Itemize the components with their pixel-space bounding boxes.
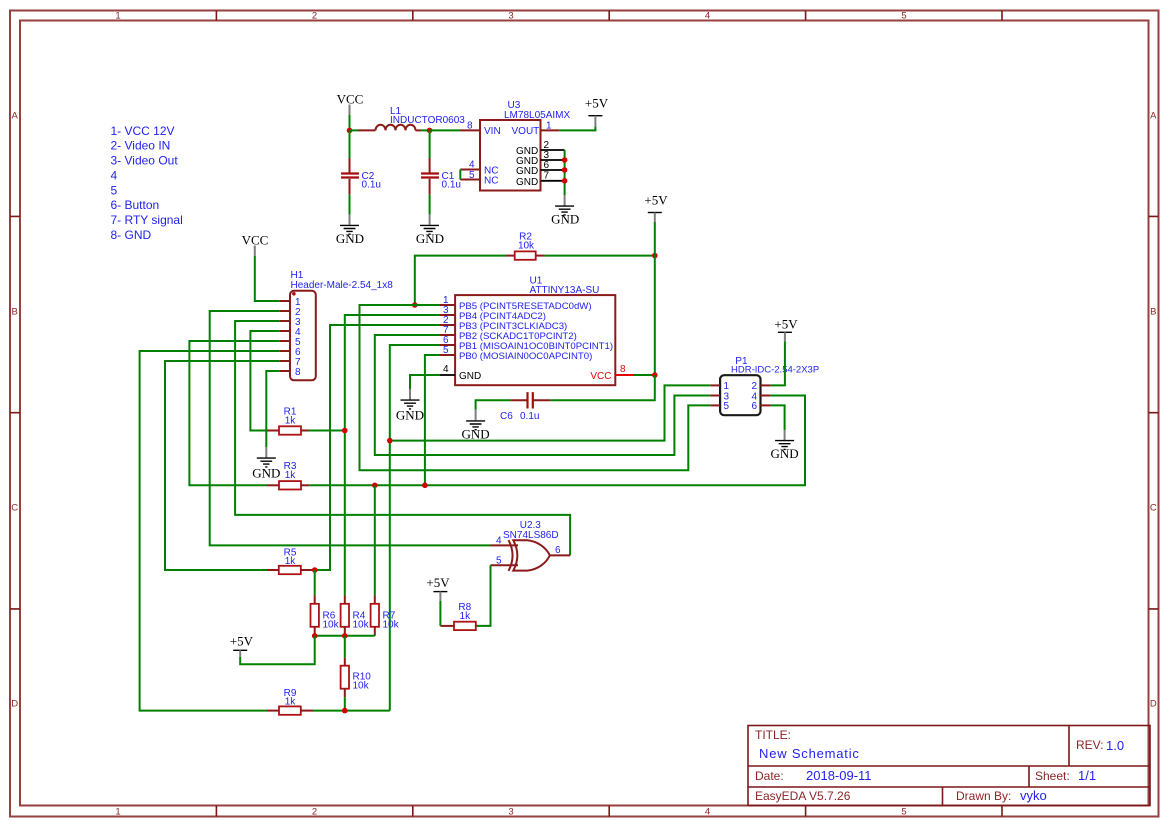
label R4 value 10k (353, 620, 370, 631)
svg-text:6: 6 (752, 401, 758, 412)
op-amp U3 LM78L05AIMX regulator (480, 120, 541, 191)
wire U1 pin4 to ground (410, 375, 440, 389)
svg-text:GND: GND (416, 231, 444, 246)
frame ticks bottom (216, 806, 1002, 817)
svg-text:REV:: REV: (1076, 738, 1104, 752)
node R2/+5V junction (652, 253, 658, 259)
label Header-Male-2.54_1x8 (291, 280, 394, 291)
svg-text:PB0 (MOSIAIN0OC0APCINT0): PB0 (MOSIAIN0OC0APCINT0) (459, 351, 592, 362)
wire +5V stem down to node (654, 222, 656, 256)
svg-text:VOUT: VOUT (512, 126, 540, 137)
node R1/PB4/R4 junction (342, 428, 348, 434)
svg-text:B: B (1150, 307, 1156, 318)
label C2 (362, 171, 375, 182)
label R2 (519, 231, 532, 242)
capacitor C2 (341, 130, 359, 214)
svg-text:GND: GND (551, 212, 579, 227)
frame column labels top (115, 11, 906, 22)
svg-text:7: 7 (544, 170, 550, 181)
pin 5 of H1 (280, 337, 301, 348)
label R6 value 10k (323, 620, 340, 631)
node L1/C1/U3 junction (427, 128, 433, 134)
label H1 (291, 270, 304, 281)
pin 4 GND of U1 (440, 364, 481, 382)
easyeda version (755, 789, 851, 803)
label R5 (284, 548, 297, 559)
label HDR-IDC-2.54-2X3P (731, 365, 819, 376)
ground below C2 (336, 215, 364, 247)
net port +5V above R2 node (644, 192, 668, 222)
svg-text:VCC: VCC (590, 371, 611, 382)
pin 3 of H1 (280, 317, 301, 328)
label U2.3 (520, 520, 542, 531)
drawn by label (956, 789, 1011, 803)
svg-text:1.0: 1.0 (1106, 738, 1124, 753)
pin 8 VIN of U3 (460, 120, 501, 137)
wire +5V rail down to C6 row (550, 375, 655, 400)
wire U3 VOUT to +5V (559, 126, 595, 130)
svg-text:1/1: 1/1 (1078, 768, 1096, 783)
wire +5V node down to U1 VCC node (654, 256, 656, 375)
title block box (748, 726, 1150, 806)
resistor R1 (267, 426, 309, 434)
svg-text:2018-09-11: 2018-09-11 (806, 768, 872, 783)
svg-text:Header-Male-2.54_1x8: Header-Male-2.54_1x8 (291, 280, 394, 291)
svg-text:New Schematic: New Schematic (759, 746, 860, 761)
pin 7 PB2 of U1 (440, 325, 577, 342)
ground below C1 (416, 215, 444, 247)
svg-text:0.1u: 0.1u (362, 180, 381, 191)
resistor R6 (vertical) (311, 595, 319, 635)
node P1 pin1 / PB1 junction (387, 438, 393, 444)
svg-text:6: 6 (555, 545, 561, 556)
label R9 value 1k (285, 697, 297, 708)
label U3 (508, 100, 521, 111)
svg-text:C: C (1150, 503, 1157, 514)
pin 5 of P1 (710, 401, 729, 412)
wire H1 pin8 down to ground (266, 371, 279, 447)
svg-text:C6: C6 (500, 411, 513, 422)
wire H1 pin2 to XOR pin4 row (210, 311, 491, 545)
svg-text:5: 5 (469, 170, 475, 181)
svg-text:A: A (12, 111, 19, 122)
label R10 value 10k (353, 681, 370, 692)
pin 6 of H1 (280, 347, 301, 358)
svg-text:GND: GND (459, 371, 481, 382)
net port VCC (top) (337, 92, 364, 116)
svg-text:10k: 10k (518, 241, 535, 252)
pin 1 of P1 (710, 381, 729, 392)
inductor L1 (358, 125, 421, 131)
wire U1 pin2 row down (PB3 net) (313, 325, 440, 570)
svg-text:GND: GND (771, 446, 799, 461)
pin 1 PB5 of U1 (440, 295, 592, 312)
svg-text:+5V: +5V (230, 633, 254, 648)
wire U1 VCC to +5V rail (634, 374, 655, 376)
label R9 (284, 688, 297, 699)
capacitor C1 (421, 130, 439, 214)
label R7 (383, 610, 396, 621)
svg-text:10k: 10k (323, 620, 340, 631)
wire R2 row left to U1 pin1 vertical (415, 256, 506, 305)
svg-text:2- Video IN: 2- Video IN (111, 139, 171, 153)
node R4 bottom junction (342, 633, 348, 639)
pin 6 of P1 (752, 401, 771, 412)
label R3 (284, 461, 297, 472)
label C2 value 0.1u (362, 180, 381, 191)
svg-text:8: 8 (295, 367, 301, 378)
svg-text:0.1u: 0.1u (520, 411, 539, 422)
pin 2 of H1 (280, 307, 301, 318)
node VCC/L1/C2 junction (347, 128, 353, 134)
frame ticks left (10, 216, 20, 609)
pin 6 GND of U3 (516, 160, 565, 177)
svg-text:4: 4 (705, 807, 710, 818)
svg-text:VCC: VCC (337, 92, 364, 107)
svg-text:5: 5 (111, 183, 118, 197)
ground below P1 pin6 (771, 430, 799, 461)
node U1 VCC junction (652, 372, 658, 378)
svg-text:5: 5 (901, 807, 906, 818)
svg-text:INDUCTOR0603: INDUCTOR0603 (390, 115, 465, 126)
label R6 (323, 610, 336, 621)
svg-text:1- VCC 12V: 1- VCC 12V (111, 124, 175, 138)
wire R6 bottom down to +5V row (240, 636, 315, 664)
resistor R5 (267, 566, 313, 574)
svg-text:3: 3 (508, 11, 513, 22)
pin 4 of U2.3 (491, 536, 519, 547)
wire U1 pin1 row to PB5 loop (360, 305, 711, 470)
label P1 (735, 356, 748, 367)
label R8 (458, 602, 471, 613)
op-amp U1 ATTINY13A-SU (455, 295, 615, 385)
title value (759, 746, 860, 761)
svg-text:GND: GND (516, 177, 538, 188)
label C6 value 0.1u (520, 411, 539, 422)
svg-text:U2.3: U2.3 (520, 520, 542, 531)
pin 8 of H1 (280, 367, 301, 378)
svg-text:4: 4 (705, 11, 710, 22)
pin 5 NC of U3 (460, 170, 498, 187)
wire R5 junction down to R6 (314, 570, 316, 595)
frame row labels left (11, 111, 18, 710)
node R3 row / R7 junction (372, 483, 378, 489)
ground below H1 pin8 (252, 447, 280, 481)
wire R3 junction down to R7 (374, 485, 376, 595)
svg-text:1k: 1k (460, 611, 472, 622)
pin 3 GND of U3 (516, 150, 565, 167)
label R7 value 10k (383, 620, 400, 631)
label R3 value 1k (285, 470, 297, 481)
svg-text:+5V: +5V (585, 95, 609, 110)
svg-text:5: 5 (901, 11, 906, 22)
svg-text:4: 4 (443, 364, 449, 375)
wire H1 pin5 down to R3 (189, 341, 279, 485)
pin 3 of P1 (710, 391, 729, 402)
label C6 (500, 411, 513, 422)
wire U1 pin6 row down (PB1 net) (390, 345, 440, 711)
wire P1 pin1 loop to PB1 net (390, 385, 710, 440)
svg-text:GND: GND (462, 426, 490, 441)
wire VCC to H1 pin1 (255, 256, 280, 301)
wire H1 pin3 to XOR output loop (235, 321, 570, 555)
rev label (1076, 738, 1104, 752)
wire U1 pin5 row down (PB0 net) (425, 355, 440, 485)
svg-text:1k: 1k (285, 415, 297, 426)
wire H1 pin6 down to R9 (140, 351, 280, 711)
ground below U1 pin4 (396, 389, 424, 423)
resistor R8 (440, 622, 476, 630)
wire U3 GND bus vertical (564, 150, 566, 195)
svg-text:GND: GND (252, 466, 280, 481)
svg-text:0.1u: 0.1u (442, 180, 461, 191)
svg-text:TITLE:: TITLE: (755, 728, 791, 742)
svg-text:A: A (1150, 111, 1157, 122)
pin 5 of U2.3 (491, 555, 519, 566)
svg-text:D: D (11, 699, 18, 710)
pin 6 PB1 of U1 (440, 335, 613, 352)
wire U2 pin5 down to R8 (476, 565, 491, 626)
wire U1 pin3 row down (PB4 net) (345, 315, 440, 595)
op-amp U2.3 XOR gate body (509, 540, 550, 571)
pin 2 PB3 of U1 (440, 315, 567, 332)
label R1 (284, 406, 297, 417)
pin 2 GND of U3 (516, 140, 565, 157)
svg-text:B: B (12, 307, 18, 318)
wire P1 pin2 to +5V (770, 341, 785, 385)
svg-text:1: 1 (115, 807, 120, 818)
wire R9 right to PB1 vertical (313, 710, 390, 712)
label R10 (353, 671, 372, 682)
resistor R2 (506, 251, 545, 259)
wire R6/R4/R7 bottom row (315, 635, 375, 637)
pin 8 VCC of U1 (590, 364, 633, 382)
wire NC bracket (459, 170, 461, 180)
label C1 value 0.1u (442, 180, 461, 191)
frame ticks top (216, 11, 1002, 21)
svg-text:8: 8 (467, 120, 473, 131)
wire L1 right to C1 node (421, 129, 430, 131)
net port VCC (above H1) (242, 232, 269, 256)
title block dividers (748, 726, 1150, 806)
capacitor C6 (510, 392, 550, 408)
connector H1 box (290, 291, 316, 381)
frame column labels bottom (115, 807, 906, 818)
svg-text:+5V: +5V (644, 192, 668, 207)
label C1 (442, 171, 455, 182)
svg-text:7- RTY signal: 7- RTY signal (111, 213, 183, 227)
svg-text:1: 1 (115, 11, 120, 22)
ground below U3 (551, 195, 579, 227)
svg-text:8- GND: 8- GND (111, 228, 152, 242)
node R9/R10 junction (342, 708, 348, 714)
drawn by value (1020, 788, 1047, 803)
net port +5V left (230, 633, 254, 657)
label R8 value 1k (460, 611, 472, 622)
svg-text:GND: GND (516, 166, 538, 177)
node R3 row / PB0 junction (422, 483, 428, 489)
wire H1 pin4 down to R1 (250, 331, 279, 431)
svg-text:5: 5 (724, 401, 730, 412)
wire C6 left to ground (476, 400, 511, 410)
label ATTINY13A-SU (530, 285, 600, 296)
resistor R7 (vertical) (371, 595, 379, 635)
pin 5 PB0 of U1 (440, 345, 592, 362)
svg-text:1k: 1k (285, 697, 297, 708)
label R5 value 1k (285, 556, 297, 567)
svg-text:VCC: VCC (242, 232, 269, 247)
svg-text:3- Video Out: 3- Video Out (111, 154, 179, 168)
resistor R9 (267, 706, 313, 714)
label SN74LS86D (503, 530, 559, 541)
svg-text:NC: NC (484, 175, 498, 186)
svg-text:ATTINY13A-SU: ATTINY13A-SU (530, 285, 600, 296)
pin 7 GND of U3 (516, 170, 565, 188)
resistor R10 (vertical) (341, 636, 349, 711)
label R2 value 10k (518, 241, 535, 252)
svg-text:10k: 10k (353, 681, 370, 692)
label INDUCTOR0603 (390, 115, 465, 126)
svg-text:HDR-IDC-2.54-2X3P: HDR-IDC-2.54-2X3P (731, 365, 819, 376)
ground below C6 (462, 410, 490, 442)
svg-text:+5V: +5V (426, 575, 450, 590)
node R6 bottom junction (312, 633, 318, 639)
wire R2 right to +5V node (545, 255, 655, 257)
pin 7 of H1 (280, 357, 301, 368)
pin 6 output of U2.3 (550, 545, 570, 556)
node H1 pin1 marker (292, 292, 296, 296)
pin 1 of H1 (280, 297, 301, 308)
net port +5V at U3 output (585, 95, 609, 126)
connector P1 box (720, 375, 760, 415)
node R5/R6 junction (312, 567, 318, 573)
node U3 GND pin7 (562, 178, 568, 184)
label U1 (530, 276, 543, 287)
frame row labels right (1150, 111, 1157, 710)
frame ticks right (1149, 216, 1159, 609)
svg-text:VIN: VIN (484, 126, 501, 137)
wire +5V down to R8 left (439, 601, 441, 626)
svg-text:EasyEDA V5.7.26: EasyEDA V5.7.26 (755, 789, 851, 803)
node U3 GND pin3 (562, 157, 568, 163)
svg-text:D: D (1150, 699, 1157, 710)
wire node to L1 left (350, 129, 359, 131)
svg-text:2: 2 (312, 807, 317, 818)
label L1 (390, 106, 402, 117)
resistor R3 (267, 481, 309, 489)
label R1 value 1k (285, 415, 297, 426)
rev value (1106, 738, 1124, 753)
svg-text:3: 3 (508, 807, 513, 818)
pin 4 NC of U3 (460, 160, 498, 177)
pin 1 VOUT of U3 (512, 120, 560, 137)
svg-text:GND: GND (336, 231, 364, 246)
svg-text:LM78L05AIMX: LM78L05AIMX (504, 110, 570, 121)
legend text block (111, 124, 183, 242)
wire P1 pin4 big loop to R3 row (309, 396, 805, 486)
wire P1 pin6 to ground (770, 405, 784, 430)
net port +5V at R8 (426, 575, 450, 601)
sheet label (1035, 769, 1070, 783)
svg-text:SN74LS86D: SN74LS86D (503, 530, 559, 541)
wire U1 pin7 row to P1 pin3 (PB2 net) (375, 335, 710, 455)
svg-text:4: 4 (111, 168, 118, 182)
svg-text:4: 4 (496, 536, 502, 547)
date label (755, 769, 784, 783)
svg-text:8: 8 (620, 364, 626, 375)
svg-text:Drawn By:: Drawn By: (956, 789, 1011, 803)
label R4 (353, 610, 366, 621)
title label (755, 728, 791, 742)
svg-text:10k: 10k (383, 620, 400, 631)
wire C1 node to U3 VIN (430, 129, 460, 131)
node U1 pin1 junction (412, 302, 418, 308)
node U3 GND pin6 (562, 167, 568, 173)
svg-text:2: 2 (312, 11, 317, 22)
pin 2 of P1 (752, 381, 771, 392)
wire VCC stem to node (349, 115, 351, 130)
pin 4 of H1 (280, 327, 301, 338)
svg-text:5: 5 (443, 345, 449, 356)
svg-text:GND: GND (396, 408, 424, 423)
svg-text:1k: 1k (285, 556, 297, 567)
pin 3 PB4 of U1 (440, 305, 546, 322)
svg-text:10k: 10k (353, 620, 370, 631)
resistor R4 (vertical) (341, 595, 349, 635)
svg-text:Date:: Date: (755, 769, 784, 783)
date value (806, 768, 872, 783)
wire R1 right to PB4 net (309, 430, 345, 432)
svg-text:C: C (11, 503, 18, 514)
wire H1 pin7 down to R5 (165, 361, 280, 570)
svg-text:Sheet:: Sheet: (1035, 769, 1070, 783)
svg-text:1: 1 (546, 120, 552, 131)
svg-text:6- Button: 6- Button (111, 198, 160, 212)
label LM78L05AIMX (504, 110, 570, 121)
svg-text:vyko: vyko (1020, 788, 1047, 803)
sheet value (1078, 768, 1096, 783)
svg-text:5: 5 (496, 555, 502, 566)
svg-text:+5V: +5V (774, 317, 798, 332)
pin 4 of P1 (752, 391, 771, 402)
svg-text:1k: 1k (285, 470, 297, 481)
net port +5V above P1 (774, 317, 798, 342)
